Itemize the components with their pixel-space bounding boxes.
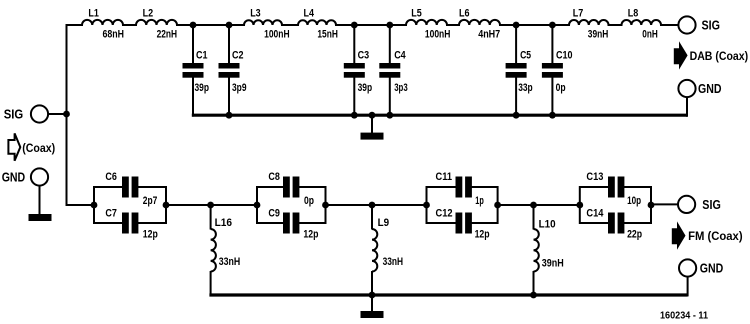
capacitor C3 [353,24,355,64]
wire top rail segment 1 [66,24,84,26]
ground input bar [29,214,52,221]
svg-text:39nH: 39nH [588,29,609,41]
svg-text:SIG: SIG [4,107,24,122]
coax arrow input (outline) [8,133,20,160]
svg-text:C1: C1 [196,50,208,62]
node C13C14 right [648,202,655,209]
svg-text:3p3: 3p3 [394,82,408,94]
svg-text:L7: L7 [573,8,584,20]
node C8C9 right [322,202,329,209]
svg-text:C13: C13 [586,171,603,183]
svg-text:22p: 22p [627,229,642,241]
svg-text:4nH7: 4nH7 [478,29,500,41]
node C1 top [190,22,197,29]
svg-text:SIG: SIG [702,197,721,212]
svg-text:33nH: 33nH [219,256,241,268]
capacitor C2 [228,24,230,64]
inductor L5 [406,20,447,25]
wire input to FM filter [66,204,96,206]
node L10 top [530,202,537,209]
terminal SIG output DAB [678,16,695,33]
svg-text:2p7: 2p7 [143,195,158,207]
node C10 bus [549,112,556,119]
svg-text:1p: 1p [475,195,484,207]
svg-text:10p: 10p [627,195,641,207]
node C11C12 right [494,202,501,209]
wire SIG input to node [48,113,67,115]
svg-text:GND: GND [700,261,724,276]
node L10 bus [530,292,537,299]
wire C6C7 to C8C9 [166,204,257,206]
wire C11C12 to C13C14 [498,204,581,206]
capacitor C5 [515,24,517,64]
capacitor C9 [257,222,284,224]
wire ground stub top [371,115,373,133]
node C5 top [513,22,520,29]
wire C8C9 to C11C12 [326,204,428,206]
svg-text:160234 - 11: 160234 - 11 [660,311,708,322]
svg-text:0p: 0p [556,82,566,94]
svg-text:39nH: 39nH [542,258,564,270]
node C13C14 left [576,202,583,209]
svg-text:L2: L2 [143,8,154,20]
svg-text:100nH: 100nH [425,29,451,41]
svg-text:15nH: 15nH [317,29,338,41]
node C11C12 left [423,202,430,209]
wire rail L1-L2 [122,24,137,26]
svg-text:SIG: SIG [702,18,721,33]
wire GND FM to bus [687,277,689,297]
svg-text:L6: L6 [459,8,470,20]
wire top ground bus [192,114,687,117]
ground bottom bar [361,311,384,318]
svg-text:39p: 39p [358,82,373,94]
svg-text:GND: GND [698,81,722,96]
node C6C7 left [91,202,98,209]
capacitor C6 [93,186,95,224]
svg-text:33p: 33p [518,82,533,94]
svg-text:C7: C7 [105,208,117,220]
svg-text:L10: L10 [539,219,556,231]
inductor L16 [210,205,212,230]
svg-text:C4: C4 [394,50,406,62]
node C8C9 left [254,202,261,209]
wire input vertical riser [66,24,68,206]
svg-text:C8: C8 [268,171,280,183]
inductor L3 [244,20,282,25]
inductor L6 [459,20,500,25]
svg-text:C3: C3 [358,50,370,62]
terminal SIG output FM [678,196,695,213]
svg-text:0nH: 0nH [642,29,658,41]
svg-text:L9: L9 [378,217,390,229]
node C2 top [226,22,233,29]
capacitor C10 [551,24,553,64]
terminal GND input (left) [31,168,48,185]
inductor L7 [569,20,609,25]
inductor L10 [533,205,535,230]
node C3 top [351,22,358,29]
wire rail L6-L7 [499,24,570,26]
capacitor C1 [192,24,194,64]
svg-text:39p: 39p [195,82,210,94]
node ground tap top [369,112,376,119]
svg-text:12p: 12p [143,229,158,241]
wire bottom ground bus [209,293,687,296]
svg-text:L8: L8 [628,8,639,20]
wire rail L7-L8 [608,24,623,26]
node C2 bus [226,112,233,119]
capacitor C13 [579,186,581,224]
capacitor C12 [427,222,457,224]
node C10 top [549,22,556,29]
arrow DAB output (filled) [674,41,688,69]
wire rail L8 to SIG out [660,24,678,26]
node C6C7 right [163,202,170,209]
node L16 top [207,202,214,209]
wire GND DAB to bus [686,97,688,117]
wire rail L2-L3 [176,24,245,26]
svg-text:33nH: 33nH [383,256,404,268]
svg-text:DAB (Coax): DAB (Coax) [690,51,749,63]
arrow FM output (filled) [672,221,686,249]
svg-text:68nH: 68nH [103,29,125,41]
terminal SIG input (left) [31,105,48,122]
svg-text:L4: L4 [304,8,315,20]
terminal GND output DAB [678,80,695,97]
capacitor C14 [580,222,609,224]
svg-text:GND: GND [2,170,26,185]
wire rail L4-L5 [335,24,407,26]
svg-text:L16: L16 [215,217,233,229]
wire ground stub bottom [371,295,373,312]
svg-text:C10: C10 [556,50,573,62]
inductor L8 [622,20,662,25]
ground top bar [361,133,384,140]
node input junction [63,111,70,118]
svg-text:C5: C5 [520,50,531,62]
svg-text:0p: 0p [304,195,314,207]
svg-text:C11: C11 [436,171,453,183]
node C5 bus [513,112,520,119]
svg-text:22nH: 22nH [157,29,178,41]
capacitor C7 [94,222,123,224]
svg-text:(Coax): (Coax) [22,141,55,155]
svg-text:L3: L3 [250,8,261,20]
node C3 bus [351,112,358,119]
node C4 bus [386,112,393,119]
svg-text:C14: C14 [586,208,604,220]
svg-text:3p9: 3p9 [232,82,247,94]
wire GND input stub [39,186,41,215]
capacitor C11 [426,186,428,224]
svg-text:100nH: 100nH [264,29,290,41]
inductor L4 [298,20,336,25]
node L9 bus ground tap [369,292,376,299]
capacitor C8 [256,186,258,224]
inductor L2 [136,20,177,25]
node C4 top [386,22,393,29]
svg-text:C9: C9 [268,208,280,220]
svg-text:C12: C12 [436,208,453,220]
svg-text:C2: C2 [232,50,244,62]
svg-text:12p: 12p [475,229,490,241]
wire C13C14 to SIG out FM [651,203,678,205]
terminal GND output FM [679,259,696,276]
svg-text:FM (Coax): FM (Coax) [688,231,743,243]
svg-text:12p: 12p [303,229,318,241]
svg-text:L1: L1 [88,8,99,20]
inductor L1 [82,20,123,25]
node L9 top [369,202,376,209]
inductor L9 [371,205,373,230]
wire rail L3-L4 [281,24,299,26]
capacitor C4 [389,24,391,64]
svg-text:L5: L5 [411,8,422,20]
wire rail L5-L6 [446,24,460,26]
svg-text:C6: C6 [105,171,117,183]
